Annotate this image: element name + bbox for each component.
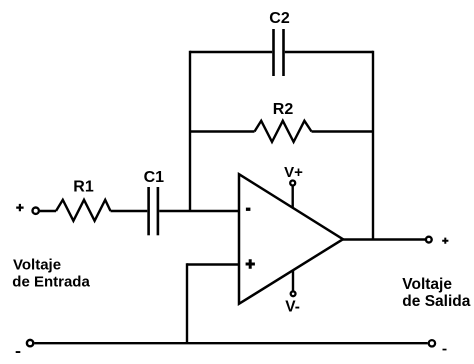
svg-text:de Entrada: de Entrada (12, 273, 90, 290)
svg-text:V+: V+ (284, 164, 303, 181)
svg-text:C2: C2 (269, 10, 290, 27)
svg-text:Voltaje: Voltaje (402, 276, 452, 293)
svg-text:R2: R2 (273, 101, 294, 118)
svg-text:Voltaje: Voltaje (13, 257, 61, 274)
svg-text:R1: R1 (73, 179, 94, 196)
svg-text:de Salida: de Salida (402, 293, 470, 310)
svg-text:V-: V- (285, 298, 300, 315)
svg-text:C1: C1 (144, 169, 165, 186)
